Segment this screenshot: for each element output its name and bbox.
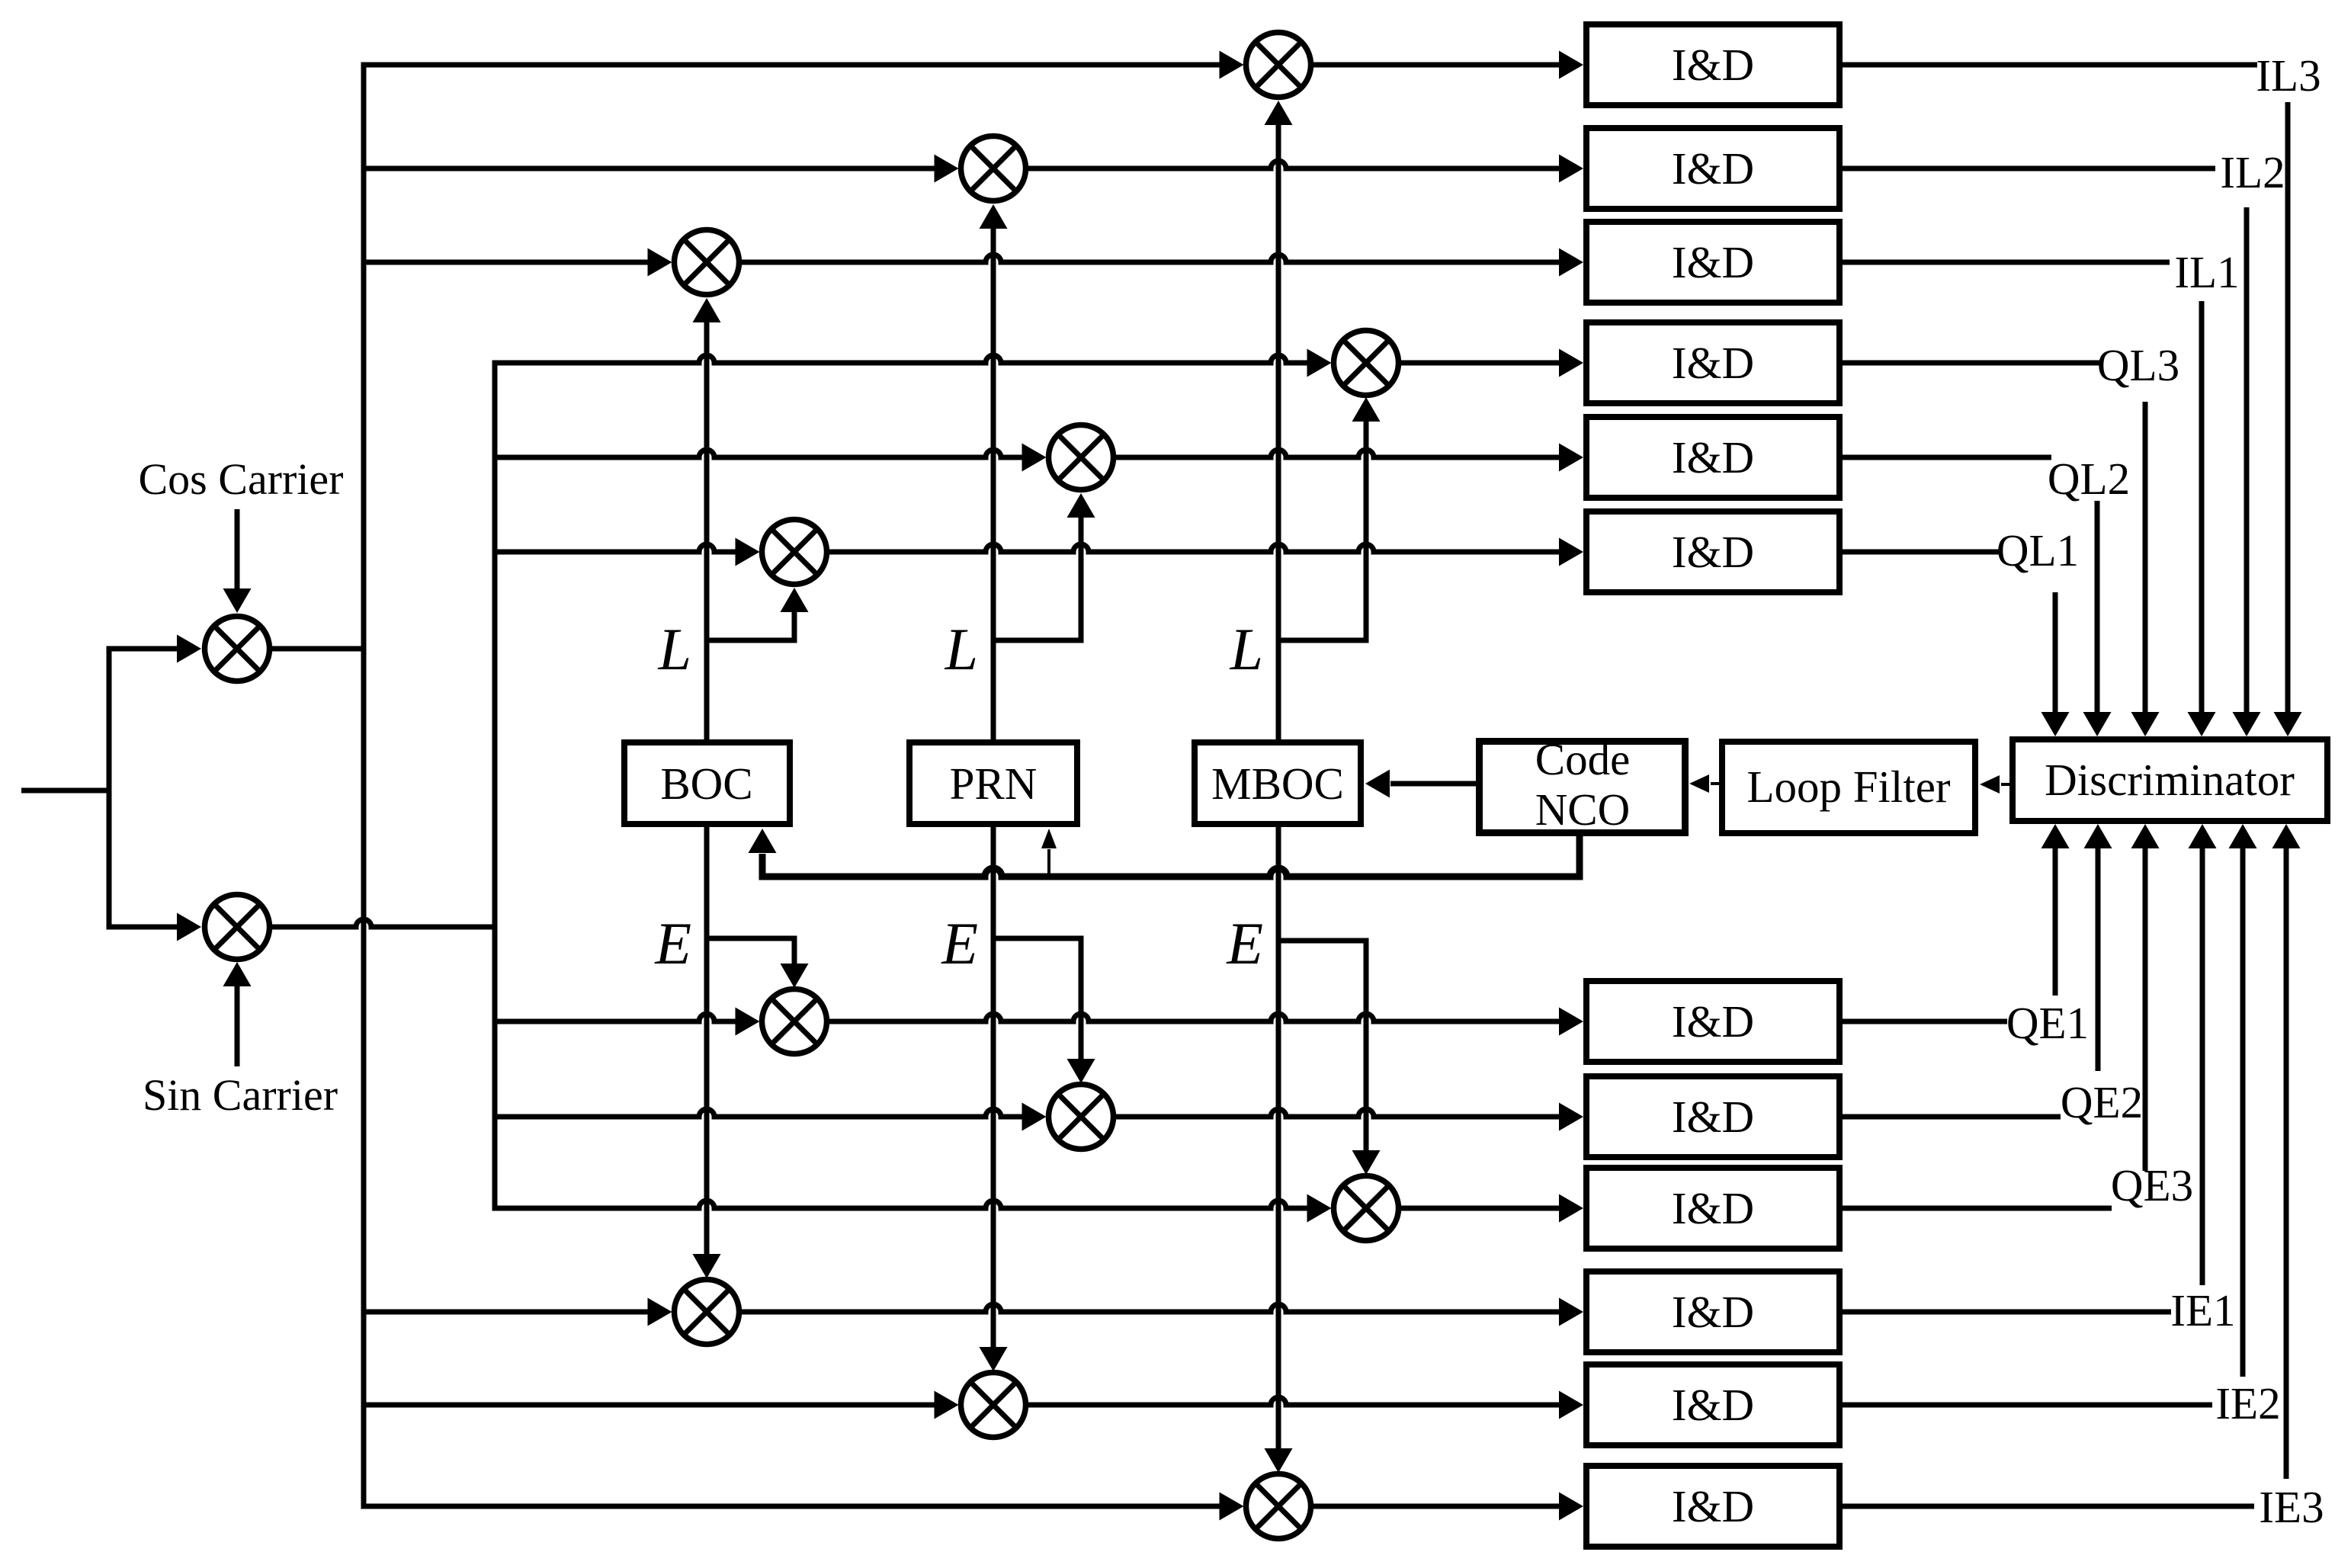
multiplier M-QE3 <box>1334 1176 1399 1241</box>
Discriminator to Loop Filter arrow <box>2001 783 2009 786</box>
I&D box QE3 <box>1586 1168 1839 1249</box>
multiplier M-QL2 <box>1049 425 1114 490</box>
svg-text:QE1: QE1 <box>2006 998 2089 1048</box>
I&D box QL2 <box>1586 417 1839 498</box>
wire row QE2 right into I&D <box>1116 1109 1561 1117</box>
svg-text:IL2: IL2 <box>2220 147 2285 197</box>
svg-text:I&D: I&D <box>1672 1380 1754 1430</box>
svg-text:QE2: QE2 <box>2061 1077 2143 1127</box>
wire QE2 into discriminator <box>2096 845 2101 1071</box>
svg-text:IL1: IL1 <box>2174 247 2239 297</box>
svg-text:QL3: QL3 <box>2097 340 2179 390</box>
multiplier M-QE1 <box>762 989 827 1054</box>
trunk B vertical (Q arm) <box>492 361 498 1211</box>
wire row IL2 left <box>361 166 935 172</box>
svg-text:I&D: I&D <box>1672 237 1754 287</box>
MBOC code vertical up <box>1276 123 1281 739</box>
svg-text:IE3: IE3 <box>2259 1482 2324 1532</box>
multiplier M-IE2 <box>961 1373 1026 1438</box>
input split vertical wire <box>107 646 112 930</box>
wire QE1 into discriminator <box>2053 845 2058 996</box>
BOC code vertical up <box>704 320 710 739</box>
wire row IL1 right into I&D <box>742 255 1561 262</box>
BOC E tap vertical <box>792 936 797 967</box>
feedback arrow into PRN <box>1047 849 1050 877</box>
svg-text:I&D: I&D <box>1672 1183 1754 1233</box>
svg-text:Cos Carrier: Cos Carrier <box>139 454 344 504</box>
MBOC box <box>1195 742 1361 824</box>
svg-text:L: L <box>1230 616 1263 682</box>
trunk A vertical (I arm) <box>361 63 367 1509</box>
svg-text:Loop Filter: Loop Filter <box>1746 762 1950 812</box>
Loop Filter box <box>1722 742 1975 833</box>
wire QL3 output <box>1843 361 2101 366</box>
wire into sin mixer <box>109 925 181 930</box>
svg-text:IE2: IE2 <box>2215 1378 2280 1429</box>
svg-text:MBOC: MBOC <box>1211 758 1344 809</box>
wire IL3 into discriminator <box>2285 102 2291 715</box>
PRN box <box>909 742 1077 824</box>
wire IL3 output <box>1843 63 2257 68</box>
svg-text:L: L <box>945 616 978 682</box>
BOC L tap vertical <box>792 610 797 643</box>
wire row QE3 right into I&D <box>1401 1206 1561 1211</box>
multiplier M-IE3 <box>1246 1474 1311 1539</box>
PRN L tap vertical <box>1079 515 1084 643</box>
wire IL2 output <box>1843 166 2215 172</box>
Discriminator box <box>2013 739 2327 821</box>
svg-text:L: L <box>658 616 691 682</box>
PRN code vertical up <box>991 226 996 739</box>
wire IL1 into discriminator <box>2199 301 2205 715</box>
svg-text:I&D: I&D <box>1672 1287 1754 1337</box>
wire IL2 into discriminator <box>2244 207 2250 715</box>
I&D box QL1 <box>1586 511 1839 592</box>
MBOC code vertical down <box>1276 827 1281 1451</box>
svg-text:I&D: I&D <box>1672 1481 1754 1531</box>
wire QL3 into discriminator <box>2143 402 2148 715</box>
I&D box IL3 <box>1586 24 1839 105</box>
wire into cos mixer <box>109 646 181 652</box>
multiplier M-IL2 <box>961 136 1026 201</box>
I&D box QE1 <box>1586 981 1839 1062</box>
wire IE2 into discriminator <box>2240 845 2246 1377</box>
svg-text:I&D: I&D <box>1672 143 1754 194</box>
svg-text:I&D: I&D <box>1672 1092 1754 1142</box>
wire QE1 output <box>1843 1019 2007 1024</box>
wire row QE1 right into I&D <box>829 1014 1561 1021</box>
wire row IL3 left <box>361 63 1220 68</box>
I&D box IL1 <box>1586 222 1839 303</box>
wire row QL2 left <box>492 450 1023 457</box>
wire row QL1 right into I&D <box>829 544 1561 552</box>
svg-text:Code: Code <box>1535 734 1631 784</box>
multiplier M-IL1 <box>675 230 739 295</box>
I&D box IE3 <box>1586 1466 1839 1547</box>
svg-text:NCO: NCO <box>1535 784 1631 835</box>
multiplier M-QL3 <box>1334 331 1399 396</box>
Code NCO box <box>1480 742 1685 833</box>
wire row QL3 right into I&D <box>1401 361 1561 366</box>
wire row QL1 left <box>492 544 736 552</box>
svg-text:IL3: IL3 <box>2256 50 2321 101</box>
multiplier M-cos <box>205 617 270 681</box>
svg-text:I&D: I&D <box>1672 40 1754 90</box>
wire row QE2 left <box>492 1109 1023 1117</box>
wire QE2 output <box>1843 1114 2061 1120</box>
wire row QL3 left <box>492 355 1308 363</box>
multiplier M-IE1 <box>675 1280 739 1345</box>
wire QE3 output <box>1843 1206 2112 1211</box>
PRN code vertical down <box>991 827 996 1349</box>
wire IL1 output <box>1843 260 2170 265</box>
svg-text:PRN: PRN <box>950 758 1038 809</box>
I&D box IE2 <box>1586 1364 1839 1445</box>
svg-text:I&D: I&D <box>1672 527 1754 577</box>
wire IE1 output <box>1843 1310 2171 1315</box>
BOC box <box>624 742 790 824</box>
wire row IE3 left <box>361 1504 1220 1509</box>
MBOC L tap vertical <box>1364 419 1369 643</box>
wire row IL2 right into I&D <box>1028 161 1561 168</box>
wire row IL1 left <box>361 260 649 265</box>
MBOC E tap vertical <box>1364 938 1369 1153</box>
wire row QL2 right into I&D <box>1116 450 1561 457</box>
svg-text:E: E <box>654 910 691 976</box>
svg-text:QL1: QL1 <box>1997 525 2079 576</box>
wire IE1 into discriminator <box>2200 845 2205 1285</box>
wire row IE3 right into I&D <box>1313 1504 1561 1509</box>
svg-text:QE3: QE3 <box>2111 1160 2193 1210</box>
wire IE2 output <box>1843 1403 2212 1408</box>
I&D box IL2 <box>1586 128 1839 209</box>
MBOC E tap wire <box>1276 938 1367 944</box>
svg-text:I&D: I&D <box>1672 432 1754 483</box>
wire QL1 output <box>1843 550 2002 555</box>
svg-text:E: E <box>1226 910 1263 976</box>
sin carrier arrow <box>235 980 240 1066</box>
multiplier M-sin <box>205 895 270 960</box>
wire QL2 into discriminator <box>2095 501 2100 715</box>
code NCO feedback wire <box>762 836 1580 877</box>
PRN L tap wire <box>991 638 1082 643</box>
multiplier M-IL3 <box>1246 33 1311 98</box>
svg-text:I&D: I&D <box>1672 996 1754 1047</box>
PRN E tap wire <box>991 936 1082 941</box>
BOC E tap wire <box>704 936 795 941</box>
wire row QE3 left <box>492 1201 1308 1208</box>
I&D box QL3 <box>1586 322 1839 403</box>
Loop Filter to Code NCO arrow <box>1711 782 1719 785</box>
cos mixer output wire <box>272 646 367 652</box>
svg-text:I&D: I&D <box>1672 338 1754 388</box>
cos carrier arrow <box>235 509 240 595</box>
wire row IE2 left <box>361 1403 935 1408</box>
sin mixer output wire <box>272 919 498 927</box>
svg-text:Sin Carrier: Sin Carrier <box>143 1070 338 1120</box>
PRN E tap vertical <box>1079 936 1084 1062</box>
wire row IE1 left <box>361 1310 649 1315</box>
svg-text:Discriminator: Discriminator <box>2045 755 2295 805</box>
Code NCO to MBOC arrow <box>1390 781 1476 787</box>
wire row IE2 right into I&D <box>1028 1397 1561 1405</box>
wire row IL3 right into I&D <box>1313 63 1561 68</box>
svg-text:QL2: QL2 <box>2048 454 2130 504</box>
MBOC L tap wire <box>1276 638 1367 643</box>
wire IE3 into discriminator <box>2284 845 2289 1479</box>
svg-text:IE1: IE1 <box>2170 1285 2235 1336</box>
multiplier M-QE2 <box>1049 1085 1114 1150</box>
wire QL1 into discriminator <box>2053 592 2058 715</box>
input signal stub <box>21 788 112 794</box>
multiplier M-QL1 <box>762 520 827 585</box>
wire row IE1 right into I&D <box>742 1304 1561 1312</box>
svg-text:BOC: BOC <box>660 758 752 809</box>
svg-text:E: E <box>941 910 978 976</box>
I&D box QE2 <box>1586 1076 1839 1157</box>
wire QL2 output <box>1843 455 2051 460</box>
wire IE3 output <box>1843 1504 2254 1509</box>
BOC code vertical down <box>704 827 710 1256</box>
I&D box IE1 <box>1586 1271 1839 1352</box>
wire QE3 into discriminator <box>2143 845 2148 1171</box>
BOC L tap wire <box>704 638 795 643</box>
wire row QE1 left <box>492 1014 736 1021</box>
